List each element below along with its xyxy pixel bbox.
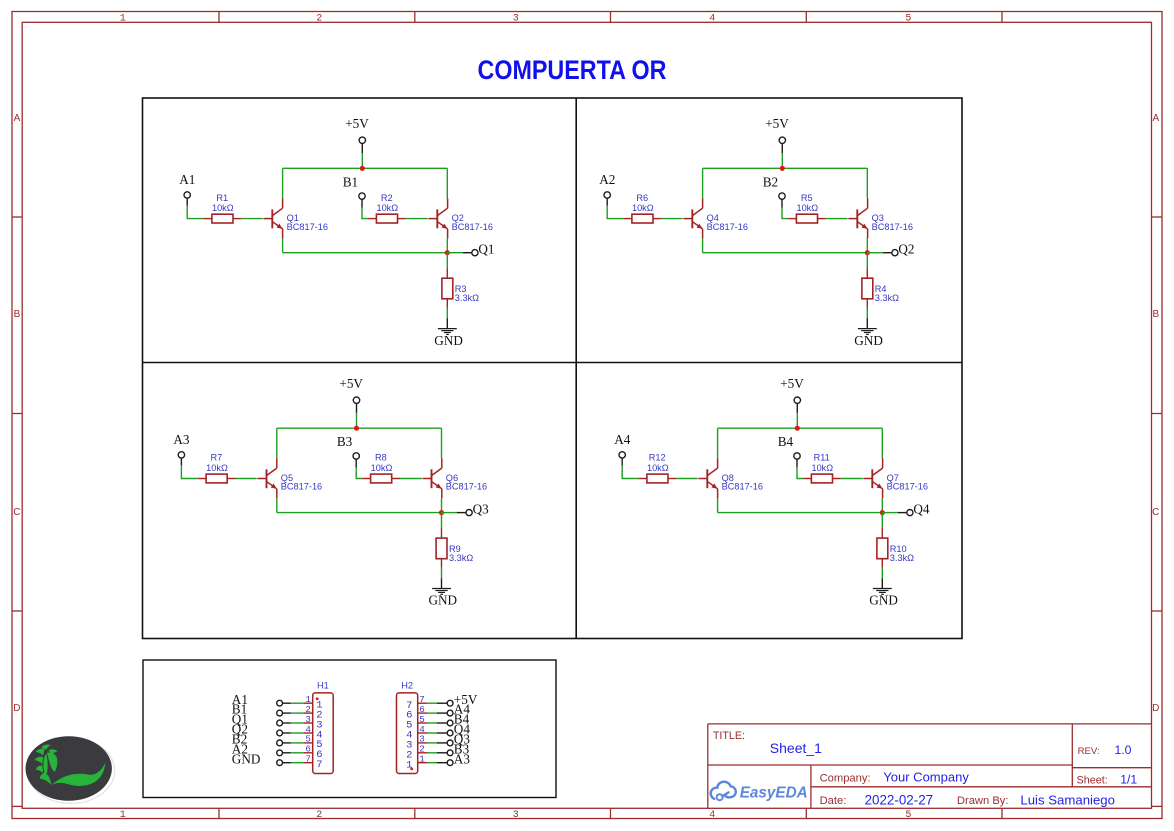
ground GND xyxy=(854,329,883,348)
transistor Q8 xyxy=(698,458,717,498)
svg-text:7: 7 xyxy=(316,759,322,771)
svg-text:A3: A3 xyxy=(454,751,471,766)
wire +5V to rail xyxy=(781,153,783,168)
svg-text:R5: R5 xyxy=(801,193,813,203)
ruler number 2 bottom xyxy=(316,810,322,821)
terminal H2 Q4 xyxy=(447,730,453,736)
svg-text:+5V: +5V xyxy=(339,376,363,391)
svg-text:A3: A3 xyxy=(173,432,190,447)
connector section box xyxy=(143,660,556,798)
junction output node xyxy=(439,510,444,515)
resistor R7 xyxy=(198,474,236,483)
wire R4 to GND xyxy=(866,299,868,329)
wire H2 pin 4 (Q4) xyxy=(428,732,448,734)
svg-text:1: 1 xyxy=(120,810,126,821)
terminal H1 A1 xyxy=(277,700,283,706)
wire Q3 emitter to output xyxy=(866,238,868,252)
svg-text:GND: GND xyxy=(434,333,463,348)
label Drawn By: xyxy=(957,795,1009,807)
ground GND xyxy=(869,589,898,608)
node Q1 (H1) xyxy=(232,712,248,727)
wire emitter output rail xyxy=(277,512,442,514)
node B4 (H2) xyxy=(454,712,470,727)
svg-text:10kΩ: 10kΩ xyxy=(376,203,398,213)
wire Q6 emitter to output xyxy=(441,498,443,512)
H2 pin 7 xyxy=(406,694,428,712)
wire output to terminal Q4 xyxy=(882,512,907,514)
svg-text:Q3: Q3 xyxy=(473,501,490,516)
svg-text:D: D xyxy=(1152,703,1159,714)
svg-text:10kΩ: 10kΩ xyxy=(212,203,234,213)
svg-text:1/1: 1/1 xyxy=(1120,772,1137,786)
svg-text:5: 5 xyxy=(905,810,911,821)
svg-text:1.0: 1.0 xyxy=(1115,743,1132,757)
svg-text:B2: B2 xyxy=(763,174,778,189)
node A4 xyxy=(614,432,631,447)
ruler number 1 top xyxy=(120,14,126,25)
ruler tick left 2 xyxy=(12,413,22,415)
svg-text:2022-02-27: 2022-02-27 xyxy=(865,793,934,808)
title block left line xyxy=(707,724,709,808)
svg-text:3: 3 xyxy=(513,810,519,821)
wire Q3 collector to rail xyxy=(866,168,868,198)
svg-text:BC817-16: BC817-16 xyxy=(281,482,322,492)
wire R6 to Q4 base xyxy=(661,218,682,220)
junction output node xyxy=(880,510,885,515)
label R3 3.3k xyxy=(455,284,479,303)
H2 pin 2 xyxy=(406,744,428,762)
svg-text:1: 1 xyxy=(406,759,412,771)
svg-text:GND: GND xyxy=(854,333,883,348)
svg-text:Q1: Q1 xyxy=(478,242,494,257)
H1 pin 4 xyxy=(303,724,322,742)
wire R12 to Q8 base xyxy=(676,478,697,480)
ruler number 2 top xyxy=(316,14,322,25)
svg-text:D: D xyxy=(13,703,20,714)
svg-text:Luis Samaniego: Luis Samaniego xyxy=(1020,792,1115,807)
transistor Q1 xyxy=(263,198,282,238)
wire junction to R3 xyxy=(446,253,448,279)
wire H2 pin 3 (Q3) xyxy=(428,742,448,744)
resistor R5 xyxy=(788,214,826,223)
svg-text:TITLE:: TITLE: xyxy=(713,730,745,742)
H2 pin 4 xyxy=(406,724,428,742)
wire R3 to GND xyxy=(446,299,448,329)
svg-text:R6: R6 xyxy=(636,193,648,203)
wire Q6 collector to rail xyxy=(441,428,443,458)
svg-text:EasyEDA: EasyEDA xyxy=(740,784,808,801)
svg-text:3.3kΩ: 3.3kΩ xyxy=(455,293,479,303)
ground GND xyxy=(434,329,463,348)
svg-text:Date:: Date: xyxy=(820,795,847,807)
wire +5V to rail xyxy=(361,153,363,168)
transistor Q6 xyxy=(423,458,442,498)
label Company: xyxy=(820,773,871,785)
ruler letter B left xyxy=(14,309,21,320)
resistor R11 xyxy=(803,474,841,483)
ruler letter B right xyxy=(1152,309,1159,320)
resistor R4 xyxy=(862,278,873,299)
ruler tick left 4 xyxy=(12,805,22,807)
wire junction to R9 xyxy=(441,513,443,539)
H1 pin 2 xyxy=(303,704,322,722)
resistor R6 xyxy=(624,214,662,223)
terminal H1 A2 xyxy=(277,750,283,756)
title block date row divider xyxy=(811,786,1152,788)
svg-text:C: C xyxy=(1152,507,1159,518)
wire R8 to Q6 base xyxy=(400,478,422,480)
svg-text:R2: R2 xyxy=(381,193,393,203)
terminal Q3 output xyxy=(466,509,472,515)
svg-text:R11: R11 xyxy=(814,453,830,463)
wire output to terminal Q3 xyxy=(442,512,467,514)
wire R2 to Q2 base xyxy=(406,218,428,220)
svg-text:10kΩ: 10kΩ xyxy=(206,463,228,473)
svg-text:3: 3 xyxy=(513,14,519,25)
terminal H1 B1 xyxy=(277,710,283,716)
ruler number 3 top xyxy=(513,14,519,25)
terminal B4 xyxy=(794,453,800,468)
terminal Q1 output xyxy=(472,250,478,256)
wire +5V to rail xyxy=(796,413,798,428)
H1 pin 7 xyxy=(303,754,322,772)
label Q6 BC817-16 xyxy=(446,473,487,492)
title block right column divider xyxy=(1071,724,1073,787)
junction output node xyxy=(445,250,450,255)
ruler number 4 top xyxy=(709,14,715,25)
terminal H2 A4 xyxy=(447,710,453,716)
label Date: xyxy=(820,795,847,807)
svg-text:BC817-16: BC817-16 xyxy=(872,222,913,232)
wire Q1 collector to rail xyxy=(282,168,284,198)
ruler tick right 3 xyxy=(1152,610,1163,612)
svg-text:A1: A1 xyxy=(179,172,195,187)
terminal A2 xyxy=(604,192,610,206)
wire Q4 collector to rail xyxy=(702,168,704,198)
svg-text:Q4: Q4 xyxy=(913,501,930,516)
svg-text:Drawn By:: Drawn By: xyxy=(957,795,1009,807)
power flag +5V (cell Q3) xyxy=(339,376,363,413)
svg-text:1: 1 xyxy=(120,14,126,25)
EasyEDA logo cloud icon xyxy=(711,782,736,800)
transistor Q5 xyxy=(258,458,277,498)
wire Q2 collector to rail xyxy=(446,168,448,198)
node Q3 (H2) xyxy=(454,732,471,747)
svg-text:H1: H1 xyxy=(317,680,329,690)
label Q4 BC817-16 xyxy=(707,213,748,232)
node B3 xyxy=(337,434,353,449)
svg-text:B3: B3 xyxy=(337,434,353,449)
ruler number 4 bottom xyxy=(709,810,715,821)
svg-text:4: 4 xyxy=(709,810,715,821)
transistor Q3 xyxy=(848,198,867,238)
svg-text:3.3kΩ: 3.3kΩ xyxy=(449,553,473,563)
title block logo cell divider xyxy=(810,765,812,808)
ruler tick bottom 5 xyxy=(1001,808,1003,818)
wire H1 pin 4 (Q2) xyxy=(283,732,304,734)
wire collector rail xyxy=(277,427,442,429)
wire output to terminal Q1 xyxy=(447,252,472,254)
node B1 (H1) xyxy=(232,702,247,717)
company logo green horse xyxy=(25,736,114,803)
power flag +5V (cell Q2) xyxy=(765,116,789,153)
ruler tick bottom 2 xyxy=(414,808,416,818)
svg-text:BC817-16: BC817-16 xyxy=(707,222,748,232)
svg-text:+5V: +5V xyxy=(345,116,369,131)
terminal H1 Q2 xyxy=(277,730,283,736)
wire Q8 emitter to output rail xyxy=(717,498,719,512)
svg-text:Your Company: Your Company xyxy=(883,770,969,785)
label H1 xyxy=(317,680,329,690)
svg-text:2: 2 xyxy=(316,810,322,821)
junction rail +5V xyxy=(360,166,365,171)
H2 pin 5 xyxy=(406,714,428,732)
wire collector rail xyxy=(718,427,883,429)
label REV: xyxy=(1078,746,1100,757)
wire H1 pin 5 (B2) xyxy=(283,742,304,744)
svg-text:GND: GND xyxy=(429,593,458,608)
wire B2 to R5 xyxy=(782,208,788,219)
label R12 10k xyxy=(647,453,669,473)
ruler tick bottom 1 xyxy=(218,808,220,818)
node B1 xyxy=(343,174,358,189)
wire +5V to rail xyxy=(356,413,358,428)
wire Q7 collector to rail xyxy=(881,428,883,458)
H2 pin 1 mark xyxy=(410,768,413,771)
wire R9 to GND xyxy=(441,559,443,589)
wire junction to R4 xyxy=(866,253,868,279)
text 2022-02-27 xyxy=(865,793,934,808)
resistor R2 xyxy=(368,214,406,223)
label Q2 BC817-16 xyxy=(452,213,493,232)
terminal H1 Q1 xyxy=(277,720,283,726)
terminal Q2 output xyxy=(892,250,898,256)
label H2 xyxy=(401,680,413,690)
transistor Q7 xyxy=(863,458,882,498)
svg-text:Sheet:: Sheet: xyxy=(1077,774,1108,786)
label TITLE: xyxy=(713,730,745,742)
ruler tick bottom 4 xyxy=(805,808,807,818)
svg-text:R1: R1 xyxy=(216,193,228,203)
svg-text:4: 4 xyxy=(709,14,715,25)
circuit frame box xyxy=(143,98,963,639)
wire collector rail xyxy=(283,167,448,169)
ruler tick bottom 3 xyxy=(610,808,612,818)
ruler tick right 2 xyxy=(1152,413,1163,415)
wire collector rail xyxy=(703,167,868,169)
node Q4 (H2) xyxy=(454,722,471,737)
wire A1 to R1 xyxy=(187,206,203,219)
ruler tick right 1 xyxy=(1152,216,1163,218)
svg-text:COMPUERTA OR: COMPUERTA OR xyxy=(478,55,667,85)
wire H2 pin 7 (+5V) xyxy=(428,702,448,704)
resistor R10 xyxy=(877,538,888,559)
node Q2 (H1) xyxy=(232,722,248,737)
svg-text:10kΩ: 10kΩ xyxy=(647,463,669,473)
title block row divider xyxy=(708,764,1073,766)
terminal H2 B3 xyxy=(447,750,453,756)
power flag +5V (cell Q1) xyxy=(345,116,369,153)
node A3 xyxy=(173,432,190,447)
wire emitter output rail xyxy=(703,252,868,254)
svg-text:A4: A4 xyxy=(614,432,631,447)
node B3 (H2) xyxy=(454,741,470,756)
connector H1 xyxy=(313,693,334,774)
label Q7 BC817-16 xyxy=(887,473,928,492)
svg-text:BC817-16: BC817-16 xyxy=(452,222,493,232)
label Sheet: xyxy=(1077,774,1108,786)
node A4 (H2) xyxy=(454,702,471,717)
svg-text:B1: B1 xyxy=(343,174,358,189)
label R9 3.3k xyxy=(449,544,473,563)
ruler tick right 4 xyxy=(1152,805,1163,807)
svg-text:BC817-16: BC817-16 xyxy=(722,482,763,492)
wire Q5 emitter to output rail xyxy=(276,498,278,512)
svg-text:GND: GND xyxy=(869,593,898,608)
svg-text:+5V: +5V xyxy=(780,376,804,391)
wire R5 to Q3 base xyxy=(826,218,848,220)
wire H1 pin 2 (B1) xyxy=(283,712,304,714)
junction rail +5V xyxy=(795,426,800,431)
svg-text:Sheet_1: Sheet_1 xyxy=(770,740,822,756)
title block REV cell bottom line xyxy=(1072,767,1151,769)
node A1 (H1) xyxy=(232,692,248,707)
label R1 10k xyxy=(212,193,234,213)
wire H2 pin 5 (B4) xyxy=(428,722,448,724)
terminal B2 xyxy=(779,193,785,208)
ruler number 5 top xyxy=(905,14,911,25)
label R4 3.3k xyxy=(875,284,899,303)
node GND (H1) xyxy=(232,751,261,766)
H2 pin 1 xyxy=(406,754,428,772)
wire H2 pin 6 (A4) xyxy=(428,712,448,714)
svg-text:BC817-16: BC817-16 xyxy=(287,222,328,232)
wire A4 to R12 xyxy=(622,465,638,478)
connector H2 xyxy=(397,693,418,774)
wire R11 to Q7 base xyxy=(841,478,863,480)
terminal H2 +5V xyxy=(447,700,453,706)
ruler number 1 bottom xyxy=(120,810,126,821)
svg-text:10kΩ: 10kΩ xyxy=(796,203,818,213)
H1 pin 3 xyxy=(303,714,322,732)
wire H1 pin 6 (A2) xyxy=(283,752,304,754)
wire B1 to R2 xyxy=(362,208,368,219)
svg-text:A: A xyxy=(1152,113,1159,124)
label Q8 BC817-16 xyxy=(722,473,763,492)
junction rail +5V xyxy=(354,426,359,431)
EasyEDA logo text xyxy=(740,784,808,801)
terminal B1 xyxy=(359,193,365,208)
ruler tick top 3 xyxy=(610,12,612,23)
wire B3 to R8 xyxy=(356,467,362,478)
svg-text:A2: A2 xyxy=(599,172,615,187)
svg-text:R8: R8 xyxy=(375,453,387,463)
label R7 10k xyxy=(206,453,228,473)
wire emitter output rail xyxy=(718,512,883,514)
ruler tick top 4 xyxy=(805,12,807,23)
junction output node xyxy=(865,250,870,255)
svg-text:BC817-16: BC817-16 xyxy=(887,482,928,492)
wire junction to R10 xyxy=(881,513,883,539)
resistor R8 xyxy=(362,474,400,483)
junction rail +5V xyxy=(780,166,785,171)
terminal H2 Q3 xyxy=(447,740,453,746)
resistor R3 xyxy=(442,278,453,299)
node A2 xyxy=(599,172,615,187)
ruler letter D right xyxy=(1152,703,1159,714)
ruler letter A left xyxy=(14,113,21,124)
svg-text:5: 5 xyxy=(905,14,911,25)
svg-text:10kΩ: 10kΩ xyxy=(632,203,654,213)
text Luis Samaniego xyxy=(1020,792,1115,807)
wire Q8 collector to rail xyxy=(717,428,719,458)
svg-text:BC817-16: BC817-16 xyxy=(446,482,487,492)
ruler letter A right xyxy=(1152,113,1159,124)
label R11 10k xyxy=(811,453,833,473)
wire Q5 collector to rail xyxy=(276,428,278,458)
svg-text:H2: H2 xyxy=(401,680,413,690)
node B4 xyxy=(778,434,794,449)
svg-text:GND: GND xyxy=(232,751,261,766)
svg-text:7: 7 xyxy=(305,754,311,765)
ruler tick top 2 xyxy=(414,12,416,23)
title COMPUERTA OR xyxy=(478,55,667,85)
ruler tick left 3 xyxy=(12,610,22,612)
ruler letter D left xyxy=(13,703,20,714)
transistor Q2 xyxy=(428,198,447,238)
svg-text:B4: B4 xyxy=(778,434,794,449)
wire Q7 emitter to output xyxy=(881,498,883,512)
label Q3 BC817-16 xyxy=(872,213,913,232)
label R2 10k xyxy=(376,193,398,213)
title block top line xyxy=(708,723,1152,725)
node Q4 xyxy=(913,501,930,516)
wire Q1 emitter to output rail xyxy=(282,238,284,252)
wire R1 to Q1 base xyxy=(241,218,262,220)
svg-text:R12: R12 xyxy=(649,453,666,463)
svg-text:+5V: +5V xyxy=(765,116,789,131)
svg-text:3.3kΩ: 3.3kΩ xyxy=(890,553,914,563)
wire R10 to GND xyxy=(881,559,883,589)
power flag +5V (cell Q4) xyxy=(780,376,804,413)
resistor R12 xyxy=(639,474,677,483)
H2 pin 6 xyxy=(406,704,428,722)
terminal H1 GND xyxy=(277,760,283,766)
svg-text:A: A xyxy=(14,113,21,124)
svg-text:C: C xyxy=(13,507,20,518)
H1 pin 5 xyxy=(303,734,322,752)
node Q3 xyxy=(473,501,490,516)
ruler tick left 1 xyxy=(12,216,22,218)
wire Q2 emitter to output xyxy=(446,238,448,252)
wire H2 pin 1 (A3) xyxy=(428,762,448,764)
ruler letter C right xyxy=(1152,507,1159,518)
label R5 10k xyxy=(796,193,818,213)
terminal H2 A3 xyxy=(447,760,453,766)
label R6 10k xyxy=(632,193,654,213)
terminal H1 B2 xyxy=(277,740,283,746)
wire Q4 emitter to output rail xyxy=(702,238,704,252)
terminal Q4 output xyxy=(907,509,913,515)
svg-text:1: 1 xyxy=(419,754,425,765)
resistor R9 xyxy=(436,538,447,559)
node B2 xyxy=(763,174,778,189)
node B2 (H1) xyxy=(232,732,247,747)
svg-text:B: B xyxy=(1152,309,1159,320)
wire R7 to Q5 base xyxy=(236,478,257,480)
node +5V (H2) xyxy=(454,692,478,707)
ruler tick top 1 xyxy=(218,12,220,23)
